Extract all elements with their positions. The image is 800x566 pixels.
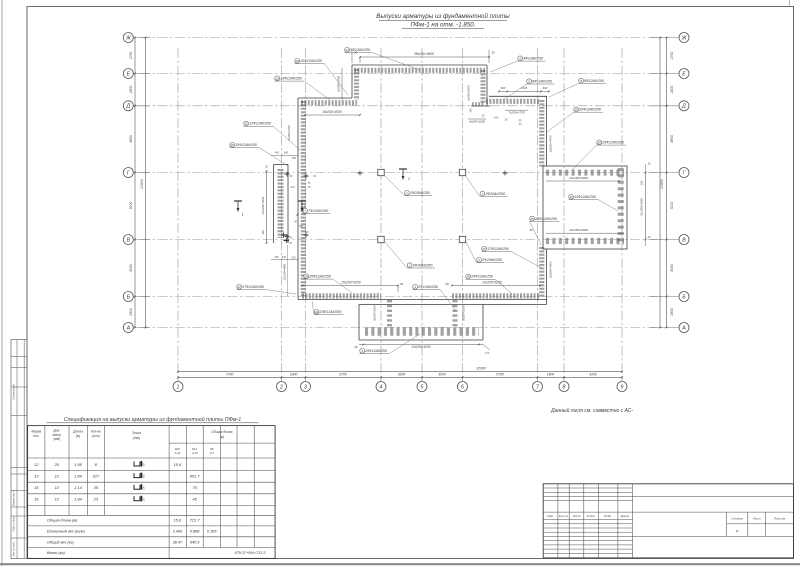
south wing outline left [358, 305, 360, 341]
leader label 3 25Ф12АII/250 [360, 348, 365, 353]
svg-text:2Ф20АII/250: 2Ф20АII/250 [481, 258, 502, 262]
svg-text:15: 15 [231, 143, 235, 147]
svg-text:25Ф12АII/250: 25Ф12АII/250 [601, 141, 624, 145]
leader label 23 23Ф12АII/250 [314, 309, 319, 314]
wall north-center horizontal [489, 95, 547, 97]
svg-text:2700: 2700 [129, 52, 133, 61]
svg-text:15Ф12АII/250: 15Ф12АII/250 [235, 143, 257, 147]
svg-text:A-III: A-III [174, 451, 181, 455]
svg-text:Согласовано: Согласовано [12, 384, 16, 400]
svg-text:601.7: 601.7 [190, 473, 201, 478]
svg-text:17Ф12АII/250: 17Ф12АII/250 [242, 285, 264, 289]
svg-text:2Ф20АII/250: 2Ф20АII/250 [409, 191, 430, 195]
svg-text:21600: 21600 [140, 179, 144, 190]
svg-text:2700: 2700 [670, 52, 674, 61]
svg-text:Стадия: Стадия [731, 516, 743, 520]
leader label 12 12Ф12АII/250 [244, 121, 249, 126]
svg-text:8x250=2000: 8x250=2000 [373, 305, 377, 321]
rebar teeth west outer wall [278, 169, 284, 238]
rebar tie mark [503, 172, 508, 174]
svg-text:26: 26 [304, 275, 309, 279]
column axis 4-Г [378, 169, 384, 175]
leader label 13 13Ф12АII/250 [275, 76, 280, 81]
axis circle Ж left [123, 33, 133, 43]
column axis 6-Г [459, 169, 465, 175]
leader label 20 20Ф12АII/250 [466, 274, 471, 279]
svg-text:25Ф12АII/250: 25Ф12АII/250 [534, 217, 557, 221]
svg-text:17: 17 [238, 285, 242, 289]
axis circle 8 bottom [559, 382, 569, 392]
svg-text:185: 185 [494, 116, 499, 120]
svg-text:640.9: 640.9 [190, 540, 200, 544]
leader label 2 2Ф20АII/250 [477, 257, 482, 262]
svg-text:327: 327 [93, 473, 100, 478]
leader label 15 15Ф12АII/250 [230, 142, 235, 147]
svg-text:620: 620 [291, 256, 296, 259]
axis circle Г right [679, 168, 689, 178]
svg-text:25Ф12АII/250: 25Ф12АII/250 [364, 349, 387, 353]
svg-text:5700: 5700 [496, 372, 504, 376]
svg-text:Подп. и дата: Подп. и дата [13, 516, 16, 532]
dim 25x250=6250 south wall [302, 285, 398, 287]
rebar tie mark [304, 234, 309, 236]
wall NW horizontal [298, 97, 352, 99]
svg-text:13: 13 [276, 77, 280, 81]
svg-text:1.94: 1.94 [74, 497, 83, 502]
svg-text:5100: 5100 [670, 202, 674, 210]
leader label 8 8Ф12АII/250 [579, 78, 584, 83]
rebar teeth south wing inner row [365, 327, 479, 336]
left dimension line segments [134, 38, 136, 328]
svg-text:В: В [682, 237, 686, 243]
svg-text:10Ф12АII/250: 10Ф12АII/250 [300, 59, 322, 63]
side stamp strip [11, 340, 27, 559]
svg-text:9: 9 [621, 384, 624, 390]
svg-text:8x250=2000: 8x250=2000 [461, 305, 465, 321]
svg-text:Общая длина: Общая длина [212, 430, 233, 434]
svg-text:640: 640 [284, 152, 289, 155]
svg-text:15.6: 15.6 [174, 517, 183, 522]
wall top face north wall [352, 64, 487, 66]
svg-text:13x250=4250: 13x250=4250 [411, 345, 431, 349]
svg-text:640: 640 [282, 256, 287, 259]
svg-text:(мм): (мм) [133, 436, 140, 440]
svg-text:10: 10 [296, 59, 300, 63]
wall south face line [298, 299, 547, 301]
svg-text:4250: 4250 [129, 264, 133, 272]
svg-text:Лист: Лист [752, 516, 761, 520]
dim 4x250=1000 [468, 118, 486, 120]
svg-text:6: 6 [461, 384, 464, 390]
svg-text:35: 35 [94, 485, 99, 490]
svg-text:Общая длина (м): Общая длина (м) [47, 518, 78, 522]
svg-text:7Ф12АII/250: 7Ф12АII/250 [308, 209, 328, 213]
svg-text:15.6: 15.6 [174, 462, 183, 467]
svg-text:12: 12 [55, 485, 60, 490]
rebar teeth right wing top [546, 170, 624, 176]
svg-text:4050: 4050 [670, 264, 674, 272]
wall left drop at axis 4 area [351, 65, 353, 98]
svg-text:2Ф12АII/250: 2Ф12АII/250 [417, 285, 438, 289]
svg-text:160: 160 [261, 230, 265, 235]
svg-text:679.37+5%=713.3: 679.37+5%=713.3 [234, 551, 266, 555]
leader label 1 2Ф20АII/250 [405, 190, 410, 195]
svg-text:45: 45 [192, 497, 197, 502]
svg-text:4200: 4200 [589, 372, 597, 376]
svg-text:2.14: 2.14 [73, 485, 83, 490]
axis circle 3 bottom [301, 382, 311, 392]
title block left columns [557, 484, 559, 558]
svg-text:21x250=5250: 21x250=5250 [640, 198, 644, 217]
leader label 13 13Ф12АII/250 [569, 194, 574, 199]
svg-text:0.888: 0.888 [190, 529, 200, 533]
svg-text:25: 25 [597, 141, 602, 145]
svg-text:330: 330 [468, 108, 472, 113]
svg-text:3Ф12АII/250: 3Ф12АII/250 [350, 48, 370, 52]
left overall dimension 21600 [145, 38, 147, 328]
svg-text:0.395: 0.395 [207, 529, 217, 533]
svg-text:5: 5 [421, 384, 424, 390]
right dimension line segments [666, 38, 668, 328]
leader label 17 17Ф12АII/250 [482, 246, 487, 251]
svg-text:721.7: 721.7 [190, 517, 201, 522]
wall east lower vertical [546, 249, 548, 305]
svg-text:2: 2 [408, 263, 411, 267]
svg-text:2Ф20АII/250: 2Ф20АII/250 [484, 192, 505, 196]
specification table outer border [28, 426, 276, 559]
svg-text:13: 13 [34, 473, 39, 478]
axis circle 9 bottom [617, 382, 627, 392]
dim left outer wall 21x250=5250 [266, 171, 268, 243]
svg-text:16x250=4700: 16x250=4700 [549, 135, 553, 152]
svg-text:30: 30 [529, 228, 533, 232]
axis circle А right [679, 323, 689, 333]
svg-text:13Ф12АII/250: 13Ф12АII/250 [574, 195, 596, 199]
svg-text:Е: Е [682, 71, 686, 77]
svg-text:Всего (кг): Всего (кг) [47, 551, 65, 555]
svg-text:Инв. № подл.: Инв. № подл. [13, 541, 16, 556]
svg-text:17Ф12АII/250: 17Ф12АII/250 [487, 247, 509, 251]
svg-text:Д: Д [681, 104, 686, 110]
dim 24x250=6000 right wing top [546, 180, 619, 182]
rebar teeth right wing right side [618, 168, 624, 245]
svg-text:20: 20 [574, 108, 579, 112]
specification table column lines [44, 426, 46, 516]
svg-text:8: 8 [563, 384, 566, 390]
axis circle Е right [679, 69, 689, 79]
svg-text:600: 600 [543, 86, 548, 90]
leader label 4 2Ф12АII/250 [413, 284, 418, 289]
svg-text:1.84: 1.84 [74, 473, 83, 478]
svg-text:12: 12 [34, 462, 39, 467]
title block stadia box [726, 512, 728, 536]
svg-text:2400: 2400 [670, 86, 674, 95]
svg-text:9x250=2700: 9x250=2700 [287, 125, 291, 140]
svg-text:12: 12 [55, 497, 60, 502]
wall east upper vertical [546, 96, 548, 166]
svg-text:N док.: N док. [587, 514, 596, 518]
svg-text:2Ф20АII/250: 2Ф20АII/250 [412, 263, 433, 267]
axis circle Б left [123, 292, 133, 302]
axis circle 1 bottom [173, 382, 183, 392]
svg-text:170: 170 [485, 351, 490, 355]
axis circle Д right [679, 101, 689, 111]
svg-text:2400: 2400 [670, 308, 674, 317]
wall C-hook right of north wall [486, 65, 488, 106]
axis circle 4 bottom [376, 382, 386, 392]
svg-text:23: 23 [314, 310, 319, 314]
svg-text:13: 13 [570, 195, 574, 199]
svg-text:17: 17 [483, 247, 487, 251]
svg-text:16x250=4000: 16x250=4000 [549, 261, 553, 278]
dim 6x250=1500 vertical [341, 68, 343, 100]
svg-text:A-III: A-III [191, 451, 198, 455]
svg-text:600: 600 [501, 86, 506, 90]
svg-text:(шт): (шт) [92, 434, 100, 438]
svg-text:38x250=9500: 38x250=9500 [414, 52, 434, 56]
rebar teeth small foot row [472, 102, 484, 106]
dim 16x250=4000 NW wall [305, 114, 360, 116]
rebar teeth east upper [539, 100, 544, 168]
right overall dimension 21600 [659, 38, 661, 328]
svg-text:8Ф12АII/250: 8Ф12АII/250 [584, 79, 604, 83]
right wing outline [543, 166, 627, 249]
svg-text:16x250=4000: 16x250=4000 [283, 263, 287, 280]
dim 38x250=9500 north wall [360, 56, 489, 58]
svg-text:2: 2 [477, 258, 480, 262]
svg-text:6x250=3000: 6x250=3000 [466, 85, 470, 101]
svg-text:A-I: A-I [209, 451, 214, 455]
specification table row lines [28, 470, 276, 472]
svg-text:32900: 32900 [476, 366, 486, 370]
wall west top cap [274, 164, 289, 166]
svg-text:В: В [127, 237, 131, 243]
svg-text:Спецификация на выпуски армату: Спецификация на выпуски арматуры из фунд… [64, 416, 241, 423]
svg-text:2: 2 [407, 177, 410, 181]
svg-text:А: А [681, 325, 686, 331]
svg-text:13Ф12АII/250: 13Ф12АII/250 [280, 77, 302, 81]
sheet bottom edge [0, 563, 800, 565]
leader label 9 9Ф12АII/250 [518, 56, 523, 61]
rebar tie mark [285, 236, 290, 238]
svg-text:490: 490 [274, 256, 279, 259]
svg-text:Данный лист см. совместно с АС: Данный лист см. совместно с АС- [550, 407, 633, 414]
svg-text:21x250=5250: 21x250=5250 [261, 196, 265, 215]
svg-text:5100: 5100 [129, 202, 133, 210]
svg-text:Д: Д [125, 104, 130, 110]
svg-text:(м): (м) [76, 434, 80, 438]
svg-text:Е: Е [127, 71, 131, 77]
svg-text:26Ф12АII/250: 26Ф12АII/250 [308, 275, 331, 279]
rebar tie mark [285, 173, 290, 175]
svg-text:25: 25 [530, 217, 535, 221]
bottom overall dimension 32900 [178, 371, 622, 373]
svg-text:16: 16 [34, 497, 39, 502]
svg-text:4x250=1000: 4x250=1000 [469, 120, 485, 124]
svg-text:20: 20 [54, 462, 60, 467]
south wing outline bottom [359, 339, 483, 341]
svg-text:7700: 7700 [226, 372, 234, 376]
svg-text:20Ф12АII/250: 20Ф12АII/250 [578, 108, 601, 112]
svg-text:поз.: поз. [33, 434, 39, 438]
axis circle А left [123, 323, 133, 333]
svg-text:1: 1 [242, 213, 244, 217]
svg-text:20Ф12АII/250: 20Ф12АII/250 [470, 275, 493, 279]
svg-text:1800: 1800 [547, 372, 555, 376]
svg-text:23Ф12АII/250: 23Ф12АII/250 [319, 310, 342, 314]
leader label 13 3Ф12АII/250 [345, 47, 350, 52]
svg-text:12: 12 [245, 122, 249, 126]
leader label 1 2Ф20АII/250 [480, 191, 485, 196]
svg-text:12: 12 [55, 473, 60, 478]
axis circle Б right [679, 292, 689, 302]
wall south bottom face line [359, 304, 547, 306]
leader label 17 17Ф12АII/250 [237, 284, 242, 289]
title block right section lines [633, 496, 794, 498]
svg-text:20: 20 [466, 275, 471, 279]
rebar teeth north wall [354, 68, 485, 73]
dim 24x250=6000 right wing bottom [546, 232, 624, 234]
west wall end tie marks [281, 234, 287, 236]
svg-text:Подп.: Подп. [604, 514, 612, 518]
rebar teeth west inner wall [301, 101, 306, 296]
south wing outline right [482, 305, 484, 341]
specification table header lines [169, 442, 275, 444]
svg-text:2: 2 [279, 384, 283, 390]
svg-text:2400: 2400 [129, 308, 133, 317]
svg-text:8Ф12АII/250: 8Ф12АII/250 [532, 79, 552, 83]
axis circle Е left [123, 69, 133, 79]
svg-text:75: 75 [192, 485, 197, 490]
dim right wing vertical 21x250=5250 and 160 [645, 173, 647, 240]
svg-text:21600: 21600 [660, 179, 664, 190]
svg-text:5700: 5700 [339, 372, 347, 376]
leader label 7 7Ф12АII/250 [303, 208, 308, 213]
column axis 4-В [378, 236, 384, 242]
svg-text:ПФм-1 на отм. -1.850.: ПФм-1 на отм. -1.850. [411, 22, 476, 29]
axis circle Д left [123, 101, 133, 111]
svg-text:4850: 4850 [129, 135, 133, 143]
wall west outer vertical [273, 165, 275, 244]
svg-text:3000: 3000 [438, 372, 446, 376]
axis circle 7 bottom [533, 382, 543, 392]
dim 600 2135 600 line [499, 90, 549, 92]
svg-text:12Ф12АII/250: 12Ф12АII/250 [249, 122, 271, 126]
svg-text:Дата: Дата [620, 514, 629, 518]
svg-text:24x250=6000: 24x250=6000 [568, 228, 588, 232]
svg-text:Выпуски арматуры из фундаментн: Выпуски арматуры из фундаментной плиты [376, 13, 510, 20]
svg-text:1.95: 1.95 [74, 462, 83, 467]
svg-text:23: 23 [93, 497, 99, 502]
axis grid horizontal dash-dot lines [140, 37, 662, 39]
svg-text:30: 30 [445, 282, 449, 286]
bottom dimension line segments [178, 376, 622, 378]
dim cluster west bottom [271, 259, 299, 261]
svg-text:3000: 3000 [398, 372, 406, 376]
extension line to south wall [287, 245, 289, 296]
title block header row lines [543, 511, 632, 513]
dim 25x250=6250 south wall right part [452, 285, 540, 287]
svg-text:(м): (м) [220, 435, 224, 439]
rebar tie mark [358, 172, 363, 174]
svg-text:1800: 1800 [290, 372, 298, 376]
axis circle В left [123, 235, 133, 245]
axis grid vertical dash-dot lines [177, 48, 179, 377]
svg-text:210: 210 [289, 186, 295, 189]
axis circle Ж right [679, 33, 689, 43]
svg-text:490: 490 [275, 152, 280, 155]
svg-text:(мм): (мм) [53, 437, 60, 441]
rebar teeth south wall west run [302, 293, 381, 298]
svg-text:6x250=1500: 6x250=1500 [337, 76, 341, 92]
rebar tie mark [304, 175, 309, 177]
svg-text:24x250=6000: 24x250=6000 [568, 176, 588, 180]
rebar teeth wing column left [387, 300, 392, 327]
leader label 20 20Ф12АII/250 [574, 107, 579, 112]
svg-text:30: 30 [491, 51, 495, 55]
leader label 10 10Ф12АII/250 [295, 58, 300, 63]
rebar teeth left drop [354, 69, 359, 100]
svg-text:30: 30 [354, 345, 358, 349]
axis circle 5 bottom [417, 382, 427, 392]
leader label 8 8Ф12АII/250 [527, 79, 532, 84]
sheet top-right edge tick [789, 0, 791, 7]
section mark 2 [399, 168, 407, 170]
svg-text:Листов: Листов [773, 516, 786, 520]
svg-text:Единичный вес (кг/м): Единичный вес (кг/м) [47, 529, 85, 533]
title block left rows upper [543, 487, 632, 489]
svg-text:160: 160 [640, 180, 644, 185]
leader label 25 25Ф12АII/250 [530, 216, 535, 221]
leader label 26 26Ф12АII/250 [304, 274, 309, 279]
section mark 1 left [234, 200, 242, 202]
svg-text:230: 230 [298, 225, 304, 228]
rebar teeth south wall east run [452, 293, 540, 298]
svg-text:38.47: 38.47 [173, 540, 183, 544]
section mark 1 right [298, 200, 306, 202]
rebar teeth wing column right [453, 300, 458, 327]
svg-text:2.466: 2.466 [172, 529, 183, 533]
svg-text:9Ф12АII/250: 9Ф12АII/250 [523, 57, 543, 61]
svg-text:1: 1 [177, 384, 180, 390]
svg-text:4950: 4950 [670, 135, 674, 143]
rebar teeth C-hook [481, 70, 486, 103]
rebar teeth north-center [486, 99, 539, 104]
svg-text:2400: 2400 [129, 86, 133, 95]
sheet left edge [1, 0, 3, 566]
svg-text:Общий вес (кг): Общий вес (кг) [47, 540, 74, 544]
wall west inner vertical [297, 98, 299, 300]
svg-text:Лист: Лист [572, 514, 581, 518]
dim cluster west top [271, 155, 298, 157]
axis circle 2 bottom [277, 382, 287, 392]
dim 7x250=1750 [505, 109, 528, 111]
svg-text:Изм.: Изм. [547, 514, 554, 518]
svg-text:Эскиз: Эскиз [132, 431, 141, 435]
svg-text:7x250=1750: 7x250=1750 [509, 111, 525, 115]
leader label 2 2Ф20АII/250 [407, 263, 412, 268]
title block outer border [543, 484, 793, 558]
svg-text:15: 15 [34, 485, 39, 490]
svg-text:16x250=4000: 16x250=4000 [322, 110, 342, 114]
svg-text:Кол.уч: Кол.уч [559, 514, 569, 518]
rebar teeth right wing bottom [546, 238, 624, 244]
svg-text:30: 30 [400, 282, 404, 286]
svg-text:Взамен инв. N: Взамен инв. N [13, 490, 16, 506]
svg-text:600: 600 [292, 157, 297, 160]
svg-text:1: 1 [296, 213, 298, 217]
svg-text:25x250=6250: 25x250=6250 [340, 281, 361, 285]
